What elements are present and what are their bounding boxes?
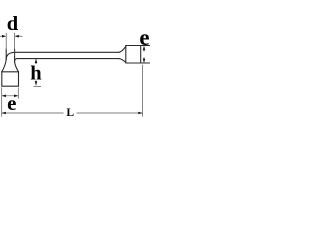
d left arrow — [2, 35, 6, 38]
right flare top — [119, 46, 126, 52]
e right up arrow — [143, 46, 146, 50]
d right arrow — [15, 35, 19, 38]
left socket box — [2, 72, 19, 86]
e bottom dim line — [2, 95, 19, 97]
right flare bottom — [119, 59, 126, 63]
e bottom extension lines — [1, 87, 3, 116]
svg-text:d: d — [7, 13, 19, 35]
d dim tails — [0, 35, 2, 37]
e right dim shafts — [143, 46, 145, 51]
h lower tick — [33, 85, 41, 87]
inner bend curve + handle bottom line — [15, 59, 119, 62]
d extension lines — [5, 33, 7, 50]
h up arrow — [35, 59, 38, 63]
L dim line — [2, 112, 143, 114]
L left arrow — [2, 112, 6, 115]
tube left edge — [5, 49, 7, 60]
wrench body outline — [2, 46, 150, 87]
left flare left slant — [2, 60, 6, 72]
L right arrow — [138, 112, 142, 115]
h down arrow — [35, 81, 38, 85]
dimension lines — [0, 33, 144, 117]
L right extension line — [142, 65, 144, 117]
e right down arrow — [143, 59, 146, 63]
svg-text:L: L — [66, 107, 74, 119]
tube right edge — [14, 49, 16, 62]
e bottom left arrow — [2, 95, 6, 98]
arrowheads — [2, 35, 146, 114]
right socket box + extension of top/bottom edges — [126, 46, 150, 64]
svg-text:e: e — [139, 25, 149, 50]
e bottom right arrow — [14, 95, 18, 98]
svg-text:e: e — [7, 91, 16, 115]
h dim shafts — [35, 59, 37, 64]
left flare right slant — [15, 62, 19, 72]
outer bend curve + handle top line — [6, 52, 119, 59]
svg-text:h: h — [30, 63, 42, 85]
